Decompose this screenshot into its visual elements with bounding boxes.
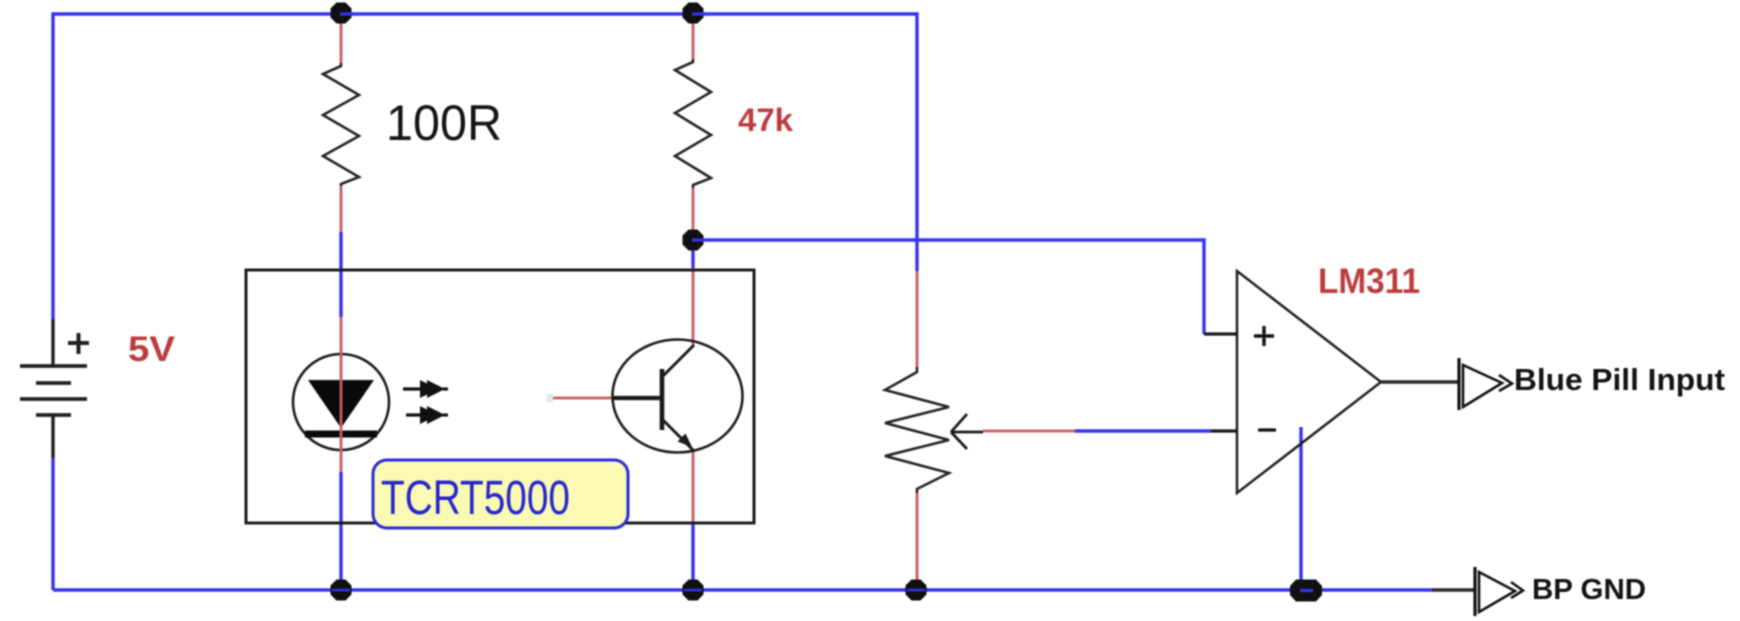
wire red through LED: [340, 317, 343, 472]
junction dot bottom emitter branch: [683, 580, 704, 601]
potentiometer RV1: [885, 367, 983, 493]
junction blob op-amp gnd on rail: [1290, 580, 1322, 602]
wire black op-amp output: [1381, 380, 1459, 383]
phototransistor Q1 (TCRT5000 detector): [612, 340, 743, 453]
wire red 100R top lead: [340, 14, 343, 63]
junction dot top 100R: [331, 3, 356, 24]
wire black gnd port lead: [1432, 588, 1476, 591]
wire blue stub below mid junction: [691, 240, 694, 268]
label 5V: [128, 330, 176, 369]
LED D1 (TCRT5000 emitter): [293, 354, 389, 450]
svg-text:47k: 47k: [738, 102, 793, 138]
wire node mid rail 47k bottom to op-amp plus input: [693, 240, 1204, 334]
TCRT5000 component box: [246, 270, 754, 523]
wire red collector lead: [692, 268, 695, 345]
svg-text:BP GND: BP GND: [1532, 574, 1646, 606]
wire red wiper lead: [983, 430, 1075, 433]
wire blue LED branch upper: [339, 232, 342, 317]
label LM311: [1318, 262, 1420, 301]
wire bottom ground rail: [53, 588, 1432, 591]
wire red 100R bottom lead: [340, 186, 343, 232]
wire red emitter lead: [692, 451, 695, 523]
wire blue LED branch lower: [339, 472, 342, 590]
port Blue Pill Input: [1459, 358, 1512, 410]
svg-text:5V: 5V: [128, 330, 176, 369]
wire black op-amp plus input stub: [1204, 332, 1238, 335]
battery BT1 5V: [20, 319, 89, 458]
port BP GND: [1475, 567, 1523, 616]
svg-text:TCRT5000: TCRT5000: [381, 472, 570, 525]
wire top rail from battery + up and across to pot column: [53, 14, 917, 319]
wire black op-amp minus input stub: [1211, 429, 1237, 432]
op-amp U1 LM311: [1237, 271, 1381, 493]
label 47k: [738, 102, 793, 138]
resistor R2 47k: [675, 59, 711, 188]
junction dot bottom LED branch: [331, 580, 352, 601]
label Blue Pill Input: [1514, 362, 1725, 397]
wire blue op-amp gnd pin down to rail: [1299, 427, 1302, 590]
label plate TCRT5000: [373, 460, 628, 528]
wire red pot bottom lead: [916, 493, 919, 590]
wire red transistor base lead: [547, 394, 612, 402]
LED emission arrow 1: [403, 380, 448, 398]
wire red pot top lead: [916, 271, 919, 367]
resistor R1 100R: [323, 63, 359, 186]
LED emission arrow 2: [406, 406, 448, 424]
svg-text:Blue Pill Input: Blue Pill Input: [1514, 362, 1725, 397]
wire bottom left rail battery - down: [51, 458, 54, 590]
label 100R: [386, 95, 502, 151]
wire red 47k bottom lead: [692, 188, 695, 240]
wire red 47k top lead: [692, 14, 695, 59]
junction dot top 47k: [683, 3, 708, 24]
svg-text:100R: 100R: [386, 95, 502, 151]
junction dot mid 47k bottom: [683, 230, 707, 251]
wire blue emitter branch lower: [691, 523, 694, 590]
junction dot bottom pot branch: [906, 580, 927, 601]
wire blue wiper to op-amp minus input: [1075, 429, 1211, 432]
svg-text:LM311: LM311: [1318, 262, 1420, 301]
label BP GND: [1532, 574, 1646, 606]
